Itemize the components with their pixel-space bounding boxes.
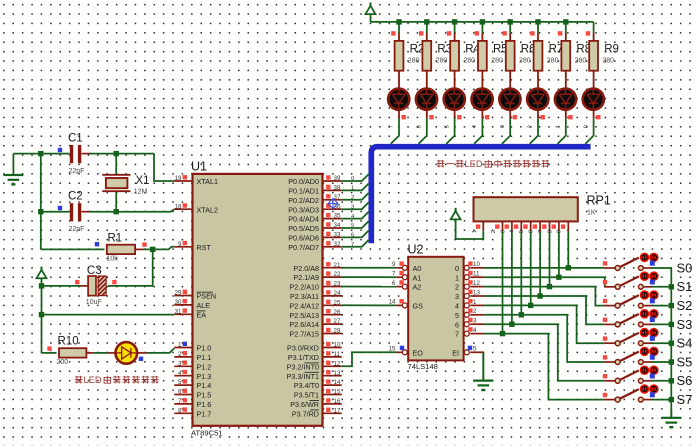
U1 pin 37 P0.2/AD2 xyxy=(288,194,341,205)
U1 pin 26 P2.5/A13 xyxy=(289,309,341,320)
wire LED D5 to bus xyxy=(502,118,510,144)
svg-text:P2.0/A8: P2.0/A8 xyxy=(293,264,319,273)
ground left (crystal) xyxy=(3,154,23,185)
svg-text:S3: S3 xyxy=(677,317,693,332)
switch S5 xyxy=(603,347,659,365)
U2 pin 3 output 6 xyxy=(455,318,484,330)
junction ground rail S3 xyxy=(669,322,674,327)
svg-text:6: 6 xyxy=(455,320,459,329)
svg-text:2: 2 xyxy=(491,230,497,233)
switch S3 xyxy=(603,309,659,327)
junction RP1 pin 6 / row 3 xyxy=(537,293,542,298)
resistor R9 xyxy=(586,22,619,79)
svg-text:P3.4/T0: P3.4/T0 xyxy=(294,381,319,390)
wire S1 to ground rail xyxy=(652,286,671,288)
resistor R4 xyxy=(447,22,481,79)
wire row0 U2 to S0 xyxy=(484,267,604,269)
svg-text:C2: C2 xyxy=(68,190,83,202)
svg-text:A0: A0 xyxy=(413,264,422,273)
svg-text:4: 4 xyxy=(473,327,477,334)
svg-text:S6: S6 xyxy=(677,373,693,388)
svg-text:2: 2 xyxy=(473,308,477,315)
svg-text:7: 7 xyxy=(351,242,354,248)
junction ground rail S6 xyxy=(669,378,674,383)
U2 pin 13 output 3 xyxy=(455,289,484,301)
junction VCC rail col 5 xyxy=(508,19,513,24)
wire row6 U2 to S6 xyxy=(484,324,604,381)
U1 pin 17 P3.7/RD xyxy=(292,407,342,418)
svg-text:11: 11 xyxy=(334,351,341,358)
wire P0.2 to bus xyxy=(342,193,369,200)
svg-text:15: 15 xyxy=(334,389,341,396)
wire row7 U2 to S7 xyxy=(484,334,604,400)
svg-text:6: 6 xyxy=(351,233,354,239)
op-amp U2 74LS148 encoder body xyxy=(408,243,464,372)
wire P0.5 to bus xyxy=(342,221,369,228)
wire junction down to C3 right xyxy=(108,249,153,286)
switch S0 xyxy=(603,253,659,271)
U1 pin 1 P1.0 xyxy=(174,342,211,353)
svg-text:XTAL2: XTAL2 xyxy=(197,205,218,214)
LED D8 (red) xyxy=(583,79,604,119)
U1 pin 8 P1.7 xyxy=(174,407,211,418)
RP1 pin 1 xyxy=(472,221,483,233)
U1 pin 12 P3.2/INT0 xyxy=(287,360,342,371)
resistor R8 xyxy=(558,22,591,79)
svg-text:S7: S7 xyxy=(677,392,693,407)
svg-text:X1: X1 xyxy=(136,175,150,187)
svg-text:C3: C3 xyxy=(87,265,102,277)
wire row5 U2 to S5 xyxy=(484,315,604,362)
svg-text:EO: EO xyxy=(413,348,424,357)
wire P2.4 to GS xyxy=(342,304,397,306)
RP1 pin 8 xyxy=(547,221,559,233)
svg-text:P2.5/A13: P2.5/A13 xyxy=(289,311,319,320)
U1 pin 6 P1.5 xyxy=(174,389,211,400)
svg-text:280: 280 xyxy=(519,58,531,65)
svg-text:38: 38 xyxy=(334,185,341,192)
RP1 pin 6 xyxy=(529,221,541,233)
junction VCC rail col 1 xyxy=(396,19,401,24)
wire P2.0 to A0 xyxy=(342,267,397,269)
svg-text:0: 0 xyxy=(351,176,354,182)
svg-text:ALE: ALE xyxy=(197,301,211,310)
U1 pin 18 XTAL2 xyxy=(174,203,218,214)
svg-text:1K: 1K xyxy=(587,209,596,216)
junction RP1 pin 7 / row 2 xyxy=(547,284,552,289)
svg-text:12: 12 xyxy=(334,360,341,367)
svg-text:LED: LED xyxy=(465,159,483,169)
svg-text:P3.5/T1: P3.5/T1 xyxy=(294,391,319,400)
U1 pin 35 P0.4/AD4 xyxy=(288,213,341,224)
junction EA row xyxy=(39,312,44,317)
svg-text:10: 10 xyxy=(334,342,341,349)
svg-text:1: 1 xyxy=(455,273,459,282)
U1 pin 19 XTAL1 xyxy=(174,175,218,186)
U1 pin 36 P0.3/AD3 xyxy=(288,203,341,214)
U1 pin 34 P0.5/AD5 xyxy=(288,222,341,233)
LED D6 (red) xyxy=(527,79,548,119)
junction R1/RST/C3 xyxy=(150,247,155,252)
svg-text:P1.1: P1.1 xyxy=(197,353,212,362)
U1 pin 30 ALE xyxy=(174,299,210,310)
wire RP1 pin 8 to row 1 xyxy=(558,231,560,277)
svg-text:3: 3 xyxy=(178,360,182,367)
svg-text:A2: A2 xyxy=(413,283,422,292)
U1 pin 5 P1.4 xyxy=(174,379,211,390)
svg-text:26: 26 xyxy=(334,309,341,316)
svg-text:2: 2 xyxy=(178,351,182,358)
svg-text:39: 39 xyxy=(334,175,341,182)
svg-text:27: 27 xyxy=(334,318,341,325)
wire P2.2 to A2 xyxy=(342,286,397,288)
svg-text:P0.4/AD4: P0.4/AD4 xyxy=(288,215,319,224)
junction VCC rail col 7 xyxy=(563,19,568,24)
wire LED D1 to bus xyxy=(391,118,399,144)
svg-text:14: 14 xyxy=(334,379,341,386)
svg-text:24: 24 xyxy=(334,290,341,297)
wire EI to ground xyxy=(482,352,484,380)
svg-text:1: 1 xyxy=(178,342,182,349)
RP1 pin 4 xyxy=(510,221,522,233)
U1 pin 39 P0.0/AD0 xyxy=(288,175,341,186)
U1 pin 13 P3.3/INT1 xyxy=(287,370,342,381)
wire R1 to RST pin xyxy=(143,247,174,250)
switch S1 xyxy=(603,271,659,289)
U1 pin 27 P2.6/A14 xyxy=(289,318,341,329)
U1 pin 7 P1.6 xyxy=(174,398,211,409)
svg-text:3: 3 xyxy=(351,204,354,210)
svg-text:P0.1/AD1: P0.1/AD1 xyxy=(288,187,319,196)
svg-text:7: 7 xyxy=(455,330,459,339)
svg-text:S0: S0 xyxy=(677,260,693,275)
svg-text:10: 10 xyxy=(473,261,480,268)
U1 pin 15 P3.5/T1 xyxy=(294,389,342,400)
svg-text:S2: S2 xyxy=(677,298,693,313)
wire VCC rail to EA pin xyxy=(42,314,175,316)
wire left rail vertical (GND rail) xyxy=(40,154,42,250)
wire row4 U2 to S4 xyxy=(484,305,604,343)
RP1 pin 7 xyxy=(538,221,550,233)
wire RP1 pin 5 to row 4 xyxy=(530,231,532,305)
wire P0.0 to bus xyxy=(342,174,369,181)
svg-text:2: 2 xyxy=(455,283,459,292)
svg-text:P1.7: P1.7 xyxy=(197,409,212,418)
junction VCC rail col 6 xyxy=(535,19,540,24)
svg-text:AT89C51: AT89C51 xyxy=(191,429,223,438)
wire RP1 pin 9 to row 0 xyxy=(567,231,569,267)
LED D9 (yellow) xyxy=(94,342,147,364)
junction VCC rail col 4 xyxy=(480,19,485,24)
svg-text:6: 6 xyxy=(529,230,535,233)
wire S4 to ground rail xyxy=(652,342,671,344)
svg-text:0: 0 xyxy=(583,125,589,128)
resistor R1 10k xyxy=(41,232,147,262)
svg-text:P2.1/A9: P2.1/A9 xyxy=(293,273,319,282)
wire P0.3 to bus xyxy=(342,202,369,209)
U1 pin 23 P2.2/A10 xyxy=(289,281,341,292)
wire P0.7 to bus xyxy=(342,240,369,247)
junction VCC rail col 2 xyxy=(424,19,429,24)
svg-text:.12M: .12M xyxy=(132,189,148,196)
svg-text:17: 17 xyxy=(334,407,341,414)
wire LED D7 to bus xyxy=(558,118,566,144)
svg-text:32: 32 xyxy=(334,241,341,248)
LED D4 (red) xyxy=(472,79,493,119)
svg-text:74LS148: 74LS148 xyxy=(408,362,438,371)
text: this LED group controlled by interrupt routine xyxy=(437,159,549,169)
svg-text:P2.6/A14: P2.6/A14 xyxy=(289,320,319,329)
svg-text:1: 1 xyxy=(472,230,478,233)
wire RP1 pin 4 to row 5 xyxy=(520,231,522,314)
wire RP1 pin1 to VCC xyxy=(456,231,484,239)
LED D3 (red) xyxy=(444,79,465,119)
svg-text:35: 35 xyxy=(334,213,341,220)
wire C2 to XTAL2 pin xyxy=(90,209,174,211)
svg-text:EA: EA xyxy=(197,310,207,319)
wire LED D8 to bus xyxy=(585,118,593,144)
wire C1 to XTAL1 corner xyxy=(90,153,154,155)
svg-text:10k: 10k xyxy=(107,256,119,263)
switch S7 xyxy=(603,384,659,402)
wire S5 to ground rail xyxy=(652,361,671,363)
svg-text:12: 12 xyxy=(473,280,480,287)
power terminal +5V top xyxy=(366,3,376,22)
svg-text:P3.0/RXD: P3.0/RXD xyxy=(287,344,319,353)
capacitor C1 22pF xyxy=(41,132,92,175)
marker (blue diamond) on P0.2 pin xyxy=(328,198,338,208)
junction C2 row / left rail xyxy=(38,209,43,214)
capacitor C2 22pF xyxy=(41,190,92,233)
wire LED D3 to bus xyxy=(446,118,454,144)
svg-text:31: 31 xyxy=(175,308,182,315)
wire row1 U2 to S1 xyxy=(484,277,605,287)
svg-text:8: 8 xyxy=(178,407,182,414)
svg-text:RP1: RP1 xyxy=(587,194,611,208)
svg-text:280: 280 xyxy=(408,58,420,65)
U1 pin 3 P1.2 xyxy=(174,360,211,371)
U2 pin 4 output 7 xyxy=(455,327,484,339)
svg-text:13: 13 xyxy=(334,370,341,377)
svg-text:XTAL1: XTAL1 xyxy=(197,177,218,186)
U1 pin 25 P2.4/A12 xyxy=(289,299,341,310)
svg-text:3: 3 xyxy=(455,292,459,301)
U1 pin 22 P2.1/A9 xyxy=(293,271,341,282)
resistor R7 xyxy=(530,22,563,79)
svg-text:0: 0 xyxy=(455,264,459,273)
LED D2 (red) xyxy=(416,79,437,119)
LED D7 (red) xyxy=(555,79,576,119)
svg-text:21: 21 xyxy=(334,262,341,269)
svg-text:29: 29 xyxy=(175,290,182,297)
svg-text:3: 3 xyxy=(500,125,506,128)
svg-text:1: 1 xyxy=(556,125,562,128)
svg-text:25: 25 xyxy=(334,299,341,306)
junction RP1 pin 2 / row 7 xyxy=(500,331,505,336)
wire LED D4 to bus xyxy=(474,118,482,144)
svg-text:10uF: 10uF xyxy=(86,299,102,306)
wire RP1 pin 3 to row 6 xyxy=(511,231,513,324)
text: this LED controlled by main routine xyxy=(75,375,159,385)
svg-text:5: 5 xyxy=(178,379,182,386)
U1 pin 28 P2.7/A15 xyxy=(289,328,341,339)
svg-text:7: 7 xyxy=(538,230,544,233)
svg-text:16: 16 xyxy=(334,398,341,405)
svg-text:P2.3/A11: P2.3/A11 xyxy=(290,292,319,301)
svg-text:P1.5: P1.5 xyxy=(197,391,212,400)
svg-text:R10: R10 xyxy=(58,336,79,348)
svg-text:P1.3: P1.3 xyxy=(197,372,212,381)
wire S6 to ground rail xyxy=(652,380,671,382)
svg-text:34: 34 xyxy=(334,222,341,229)
svg-text:P3.6/WR: P3.6/WR xyxy=(290,400,319,409)
svg-text:5: 5 xyxy=(351,223,354,229)
LED D1 (red) xyxy=(388,79,409,119)
wire P0.4 to bus xyxy=(342,212,369,219)
junction RP1 pin 9 / row 0 xyxy=(566,265,571,270)
svg-text:P0.5/AD5: P0.5/AD5 xyxy=(288,224,319,233)
U2 pin 5 output EI xyxy=(452,346,484,358)
svg-text:2: 2 xyxy=(351,195,354,201)
svg-text:280: 280 xyxy=(463,58,475,65)
U2 pin 12 output 2 xyxy=(455,280,484,292)
svg-text:R1: R1 xyxy=(108,232,123,244)
junction crystal bottom xyxy=(114,209,119,214)
wire P2.1 to A1 xyxy=(342,276,397,278)
U1 pin 24 P2.3/A11 xyxy=(290,290,342,301)
svg-text:9: 9 xyxy=(178,241,182,248)
svg-text:A1: A1 xyxy=(413,273,422,282)
svg-text:P0.7/AD7: P0.7/AD7 xyxy=(288,243,319,252)
wire RP1 pin 2 to row 7 xyxy=(502,231,504,333)
U1 pin 4 P1.3 xyxy=(174,370,211,381)
svg-text:EI: EI xyxy=(452,348,459,357)
junction VCC rail col 3 xyxy=(452,19,457,24)
resistor pack RP1 1K xyxy=(474,194,611,222)
resistor R6 xyxy=(502,22,535,79)
svg-text:19: 19 xyxy=(175,175,182,182)
wire corner to XTAL1 pin xyxy=(154,154,174,181)
svg-text:P2.4/A12: P2.4/A12 xyxy=(289,301,319,310)
svg-text:8: 8 xyxy=(547,230,553,233)
svg-text:2: 2 xyxy=(528,125,534,128)
junction C1 row / left rail xyxy=(38,151,43,156)
svg-text:R9: R9 xyxy=(604,43,619,55)
junction RP1 pin 4 / row 5 xyxy=(519,312,524,317)
svg-text:11: 11 xyxy=(473,271,480,278)
svg-text:P1.4: P1.4 xyxy=(197,381,212,390)
U1 pin 10 P3.0/RXD xyxy=(287,342,342,353)
svg-text:4: 4 xyxy=(178,370,182,377)
svg-text:280: 280 xyxy=(436,58,448,65)
svg-text:4: 4 xyxy=(455,302,459,311)
RP1 pin 2 xyxy=(491,221,503,233)
svg-text:200: 200 xyxy=(57,359,69,366)
U1 pin 31 EA xyxy=(174,308,206,319)
bus P0 (thick blue) xyxy=(371,147,590,244)
svg-text:13: 13 xyxy=(473,289,480,296)
LED D5 (red) xyxy=(499,79,520,119)
svg-text:280: 280 xyxy=(602,58,614,65)
U2 pin 11 output 1 xyxy=(455,271,484,283)
U2 pin 14 GS xyxy=(389,299,423,311)
svg-text:P0.0/AD0: P0.0/AD0 xyxy=(288,177,319,186)
wire LED D6 to bus xyxy=(530,118,538,144)
svg-text:1: 1 xyxy=(473,299,477,306)
switch S4 xyxy=(603,328,659,346)
svg-text:P0.2/AD2: P0.2/AD2 xyxy=(288,196,319,205)
svg-text:5: 5 xyxy=(444,125,450,128)
resistor R10 200 xyxy=(42,336,94,366)
wire LED to P1.0 pin xyxy=(147,348,175,353)
resistor R3 xyxy=(419,22,452,79)
wire S2 to ground rail xyxy=(652,305,671,307)
U1 pin 33 P0.6/AD6 xyxy=(288,232,341,243)
svg-text:5: 5 xyxy=(519,230,525,233)
svg-text:P3.2/INT0: P3.2/INT0 xyxy=(287,362,319,371)
svg-text:22pF: 22pF xyxy=(69,168,85,175)
U2 pin 7 A1 xyxy=(392,271,421,283)
svg-text:U2: U2 xyxy=(408,243,424,257)
junction crystal top xyxy=(114,151,119,156)
svg-text:P2.7/A15: P2.7/A15 xyxy=(289,330,319,339)
svg-text:28: 28 xyxy=(334,328,341,335)
U2 pin 15 EO xyxy=(389,346,424,358)
U1 pin 29 PSEN xyxy=(174,290,216,301)
wire RP1 pin 6 to row 3 xyxy=(539,231,541,296)
svg-text:S4: S4 xyxy=(677,336,693,351)
U1 pin 9 RST xyxy=(174,241,211,252)
wire RP1 pin 7 to row 2 xyxy=(549,231,551,286)
svg-text:P2.2/A10: P2.2/A10 xyxy=(289,283,319,292)
U2 pin 1 output 4 xyxy=(455,299,484,311)
svg-text:C1: C1 xyxy=(68,132,83,144)
junction RP1 pin 3 / row 6 xyxy=(509,322,514,327)
switch S2 xyxy=(603,290,659,308)
U1 pin 14 P3.4/T0 xyxy=(294,379,342,390)
RP1 pin 3 xyxy=(500,221,512,233)
wire S3 to ground rail xyxy=(652,323,671,325)
U1 pin 38 P0.1/AD1 xyxy=(288,185,341,196)
svg-text:280: 280 xyxy=(547,58,559,65)
U1 pin 11 P3.1/TXD xyxy=(288,351,342,362)
wire P3.2/INT0 to EO xyxy=(342,352,397,366)
junction VCC rail / C3 xyxy=(39,283,44,288)
wire VCC rail down to R10 xyxy=(41,286,43,353)
wire row2 U2 to S2 xyxy=(484,287,604,306)
svg-text:33: 33 xyxy=(334,232,341,239)
svg-text:S5: S5 xyxy=(677,354,693,369)
svg-text:P3.1/TXD: P3.1/TXD xyxy=(288,353,319,362)
svg-text:GS: GS xyxy=(413,302,424,311)
svg-text:280: 280 xyxy=(491,58,503,65)
svg-text:7: 7 xyxy=(178,398,182,405)
switch S6 xyxy=(603,365,659,383)
wire ground to C1 rail xyxy=(13,153,40,155)
ground U2 EI xyxy=(473,352,493,390)
U1 pin 2 P1.1 xyxy=(174,351,211,362)
svg-text:1: 1 xyxy=(351,186,354,192)
wire LED D2 to bus xyxy=(419,118,427,144)
U2 pin 2 output 5 xyxy=(455,308,484,320)
U1 pin 16 P3.6/WR xyxy=(290,398,341,409)
U2 pin 6 A2 xyxy=(392,280,421,292)
svg-text:6: 6 xyxy=(417,125,423,128)
svg-text:23: 23 xyxy=(334,281,341,288)
wire P0.6 to bus xyxy=(342,231,369,238)
U2 pin 9 A0 xyxy=(392,261,421,273)
U1 pin 32 P0.7/AD7 xyxy=(288,241,341,252)
